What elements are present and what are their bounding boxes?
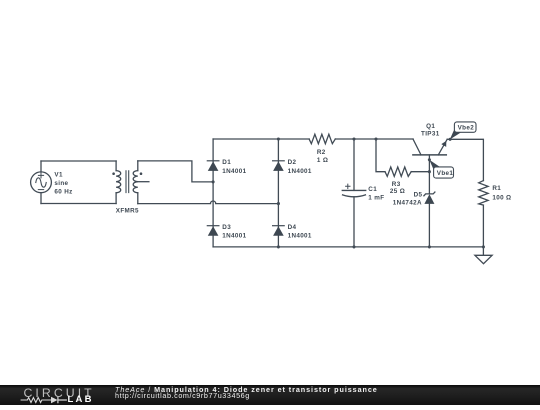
- wire base lead: [428, 155, 430, 193]
- svg-text:R2: R2: [317, 149, 326, 156]
- node emitter Vbe2 attach: [449, 138, 452, 141]
- node D2 D4 junction: [277, 202, 280, 205]
- wire bottom rail: [213, 246, 483, 248]
- svg-text:1N4742A: 1N4742A: [393, 200, 422, 207]
- node R3 zener base: [428, 170, 431, 173]
- node D4 bottom: [277, 245, 280, 248]
- svg-text:V1: V1: [54, 171, 63, 178]
- footer url: [115, 391, 250, 400]
- svg-text:Vbe2: Vbe2: [458, 124, 475, 131]
- svg-text:TIP31: TIP31: [421, 131, 440, 138]
- svg-text:60 Hz: 60 Hz: [54, 188, 72, 195]
- svg-text:100 Ω: 100 Ω: [492, 194, 511, 201]
- node R3 drop: [374, 137, 377, 140]
- probe flag Vbe2: [450, 122, 476, 140]
- footer title: [115, 385, 378, 394]
- wire D2 D4 branch: [277, 139, 279, 247]
- node C1 bottom: [352, 245, 355, 248]
- resistor R1: [479, 181, 488, 206]
- resistor R3: [385, 167, 411, 176]
- transformer XFMR5: [112, 161, 149, 204]
- wire ground stem: [482, 247, 484, 255]
- node C1 top: [352, 137, 355, 140]
- svg-text:1 Ω: 1 Ω: [317, 157, 328, 164]
- svg-text:1N4001: 1N4001: [288, 233, 312, 240]
- ground: [475, 255, 492, 263]
- diode D3: [207, 226, 219, 236]
- transistor Q1: [413, 139, 447, 155]
- svg-text:D1: D1: [222, 159, 231, 166]
- resistor R2: [309, 134, 335, 143]
- svg-text:C1: C1: [368, 186, 377, 193]
- svg-text:D2: D2: [288, 159, 297, 166]
- wire R3 branch drop: [376, 139, 385, 172]
- svg-text:R1: R1: [492, 185, 501, 192]
- svg-text:25 Ω: 25 Ω: [390, 188, 405, 195]
- svg-text:D5: D5: [414, 192, 423, 199]
- wire emitter to right rail: [447, 139, 483, 180]
- wire zener to bottom rail: [428, 204, 430, 247]
- probe flag Vbe1: [429, 160, 453, 178]
- wire top rail left: [213, 138, 309, 140]
- svg-text:XFMR5: XFMR5: [116, 208, 139, 215]
- node D2 top: [277, 137, 280, 140]
- node ground junction: [482, 245, 485, 248]
- node base Vbe1 attach: [428, 158, 431, 161]
- zener diode D5: [424, 192, 435, 204]
- svg-text:1N4001: 1N4001: [222, 168, 246, 175]
- voltage source V1: [31, 172, 52, 193]
- wire top left: [41, 160, 116, 162]
- wire secondary top to bridge: [138, 161, 213, 182]
- wire R3 to base: [411, 171, 429, 173]
- wire bottom left: [41, 203, 116, 205]
- wire V1 bottom lead: [40, 193, 42, 204]
- svg-text:Vbe1: Vbe1: [437, 170, 454, 177]
- svg-text:D4: D4: [288, 224, 297, 231]
- diode D2: [273, 161, 285, 171]
- diode D4: [273, 226, 285, 236]
- logo resistor diode LAB: [20, 396, 120, 405]
- svg-text:1N4001: 1N4001: [222, 233, 246, 240]
- wire V1 top lead: [40, 161, 42, 172]
- svg-text:sine: sine: [54, 180, 68, 187]
- wire secondary bottom to bridge with hop: [138, 201, 279, 204]
- svg-text:Q1: Q1: [426, 123, 435, 130]
- node D1 D3 junction: [212, 180, 215, 183]
- footer bar: [0, 385, 540, 406]
- svg-text:1 mF: 1 mF: [368, 195, 384, 202]
- svg-text:D3: D3: [222, 224, 231, 231]
- wire R1 to bottom rail: [482, 205, 484, 247]
- wire top rail right: [335, 138, 413, 140]
- capacitor C1: [342, 139, 365, 247]
- logo CIRCUIT: [24, 388, 95, 399]
- wire D1 D3 branch: [212, 139, 214, 247]
- diode D1: [207, 161, 219, 171]
- svg-text:1N4001: 1N4001: [288, 168, 312, 175]
- node zener bottom: [428, 245, 431, 248]
